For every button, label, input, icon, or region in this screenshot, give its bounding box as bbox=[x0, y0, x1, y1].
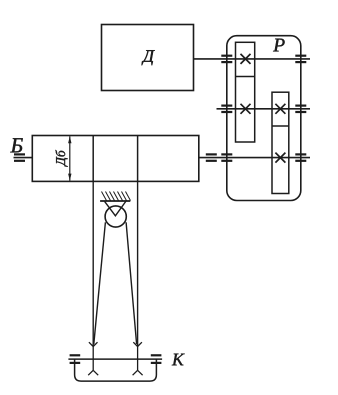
shaft II (intermediate) bbox=[217, 108, 311, 110]
shaft I (motor to reducer) bbox=[194, 58, 311, 60]
hook block right pulley fork bbox=[133, 370, 143, 375]
fixed support ceiling line bbox=[100, 200, 130, 202]
shaft III left stub bbox=[14, 157, 33, 159]
motor Д box bbox=[102, 25, 194, 91]
hook block axle bbox=[68, 358, 162, 360]
rope fall left (from drum) bbox=[92, 181, 94, 345]
bearing shaft I left wall bbox=[221, 56, 232, 62]
hook block bearing left bbox=[70, 355, 81, 363]
pulley hanger triangle bbox=[105, 201, 126, 215]
rope from pulley down-left bbox=[94, 222, 106, 344]
cross fixed-joint on shaft III gear bbox=[275, 153, 285, 163]
motor label Д bbox=[142, 50, 155, 65]
gear block Z1-Z2 (left) bbox=[236, 42, 255, 142]
bearing shaft II right wall bbox=[295, 106, 306, 112]
bearing shaft II left wall bbox=[221, 106, 232, 112]
upper fixed pulley bbox=[105, 206, 126, 227]
cross fixed-joint on shaft II right gear bbox=[275, 104, 285, 114]
dimension label Дб (rotated) bbox=[55, 150, 67, 167]
divider gear block left bbox=[236, 76, 255, 78]
bearing drum left bbox=[14, 154, 25, 160]
drum divider left bbox=[92, 136, 94, 182]
cross fixed-joint on shaft II left gear bbox=[241, 104, 251, 114]
rope fall right (from drum) bbox=[137, 181, 139, 345]
cross fixed-joint on shaft I gear bbox=[241, 54, 251, 64]
fixed support hatching bbox=[102, 192, 131, 201]
label Б (drum) bbox=[10, 138, 22, 152]
bearing shaft I right wall bbox=[295, 56, 306, 62]
hook block frame bracket bbox=[75, 359, 157, 381]
shaft III (drum shaft, right of drum) bbox=[199, 157, 310, 159]
reducer P housing bbox=[227, 36, 301, 201]
divider gear block right bbox=[272, 125, 289, 127]
hook block left pulley stem bbox=[92, 347, 94, 371]
hook block right pulley stem bbox=[137, 347, 139, 371]
reducer label Р bbox=[273, 39, 285, 52]
drum body bbox=[32, 136, 199, 182]
label К (hook block) bbox=[172, 354, 185, 366]
rope arrow left bbox=[89, 342, 98, 346]
rope from pulley down-right bbox=[126, 222, 137, 344]
drum divider right bbox=[137, 136, 139, 182]
bearing drum right bbox=[206, 154, 217, 160]
bearing shaft III right wall bbox=[295, 154, 306, 160]
bearing shaft III left wall bbox=[221, 154, 232, 160]
hook block left pulley fork bbox=[88, 370, 98, 375]
gear block Z3-Z4 (right) bbox=[272, 92, 289, 193]
rope arrow right bbox=[133, 342, 142, 346]
dimension arrow Дб bbox=[68, 136, 71, 180]
hook block bearing right bbox=[151, 355, 162, 363]
